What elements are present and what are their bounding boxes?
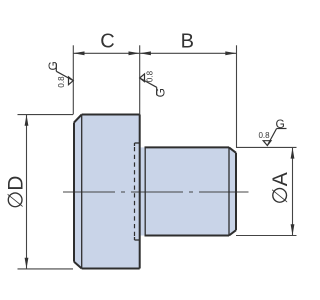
phi-A dimension line bbox=[292, 147, 294, 235]
svg-text:0.8: 0.8 bbox=[258, 131, 270, 140]
phi-A extension line bottom bbox=[236, 235, 297, 237]
phi-A extension line top (leader) bbox=[236, 146, 297, 148]
large cylinder outline bbox=[74, 115, 140, 269]
hidden line: groove bottom bbox=[134, 147, 136, 236]
svg-text:0.8: 0.8 bbox=[146, 70, 155, 82]
centerline bbox=[63, 191, 249, 193]
relief groove notch (top) bbox=[135, 143, 140, 146]
dimension extension line right (B) bbox=[236, 45, 238, 147]
arrow phi-A bottom bbox=[291, 224, 295, 235]
arrow B left bbox=[140, 51, 151, 55]
dimension line B bbox=[140, 52, 237, 54]
surface finish symbol left (G 0.8), rotated, tip on left extension line bbox=[56, 63, 73, 84]
svg-text:G: G bbox=[276, 117, 285, 131]
svg-text:B: B bbox=[181, 31, 194, 53]
chamfer edge line on small cylinder right end bbox=[228, 147, 230, 235]
small cylinder outline bbox=[145, 147, 237, 235]
phi-D extension line top bbox=[18, 114, 74, 116]
phi-D dimension line bbox=[26, 115, 28, 269]
arrow phi-D top bbox=[25, 115, 29, 126]
surface finish symbol middle (G 0.8), rotated, tip on middle extension line bbox=[140, 74, 157, 95]
svg-text:∅A: ∅A bbox=[269, 172, 292, 204]
arrow C right bbox=[129, 51, 140, 55]
svg-text:0.8: 0.8 bbox=[57, 76, 66, 88]
part fill: small cylinder body bbox=[140, 147, 236, 235]
dimension extension line middle (C/B) bbox=[139, 45, 141, 114]
chamfer edge line on large cylinder bbox=[81, 115, 83, 269]
arrow C left bbox=[73, 51, 84, 55]
svg-text:∅D: ∅D bbox=[5, 176, 28, 209]
svg-text:C: C bbox=[100, 31, 114, 53]
arrow B right bbox=[225, 51, 236, 55]
arrow phi-D bottom bbox=[25, 258, 29, 269]
groove edge line on small cylinder left end bbox=[144, 147, 146, 235]
svg-text:G: G bbox=[46, 61, 60, 70]
arrow phi-A top bbox=[291, 147, 295, 158]
dimension line C bbox=[73, 52, 139, 54]
svg-text:G: G bbox=[153, 88, 167, 97]
part fill: large cylinder body bbox=[74, 115, 140, 269]
surface finish symbol right (G 0.8), upright on phi-A top extension bbox=[263, 129, 286, 146]
phi-D extension line bottom bbox=[18, 268, 74, 270]
relief groove notch (bottom) bbox=[135, 237, 140, 240]
dimension extension line left (C) bbox=[72, 45, 74, 114]
